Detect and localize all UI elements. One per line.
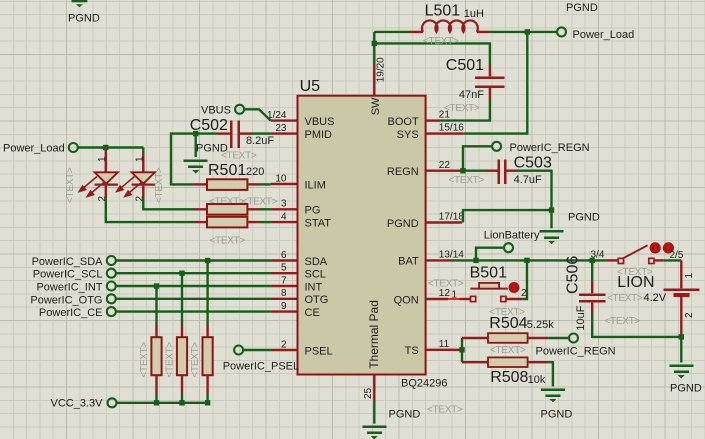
wire L501 to Power_Load	[490, 31, 557, 33]
resistor R501 right lead	[247, 183, 259, 185]
wire LED D1 to STAT resistor	[106, 199, 195, 223]
wire RP3 upper	[206, 261, 208, 325]
terminal VCC_3.3V	[108, 398, 117, 407]
wire R501 to ILIM pin	[260, 183, 271, 185]
capacitor C501 plates	[475, 78, 504, 87]
svg-text:<TEXT>: <TEXT>	[423, 36, 459, 47]
resistor RP3 body (vertical)	[203, 337, 213, 375]
svg-text:BAT: BAT	[398, 256, 419, 268]
terminal PowerIC_SCL	[107, 269, 116, 278]
svg-text:STAT: STAT	[305, 217, 332, 229]
wire PowerIC_OTG to pin	[116, 298, 271, 300]
capacitor C501 top lead	[489, 66, 491, 77]
resistor R-STAT body	[207, 217, 247, 228]
capacitor C506 top lead	[591, 282, 593, 294]
svg-text:6: 6	[281, 250, 287, 261]
wire VCC_3.3V rail	[117, 402, 208, 404]
svg-text:PowerIC_INT: PowerIC_INT	[36, 282, 102, 294]
svg-text:PowerIC_PSEL: PowerIC_PSEL	[223, 361, 299, 373]
resistor RP3 upper lead	[206, 325, 208, 338]
resistor RP2 body (vertical)	[177, 337, 187, 375]
svg-text:<TEXT>: <TEXT>	[427, 405, 463, 416]
LED D2	[117, 148, 155, 199]
svg-text:C502: C502	[190, 117, 228, 134]
wire VBUS terminal to pin (diagonal)	[245, 109, 271, 120]
svg-text:R508: R508	[490, 369, 528, 386]
svg-text:25: 25	[363, 387, 374, 399]
pin OTG stub (pin 8)	[271, 298, 298, 300]
switch SW right lead	[654, 259, 664, 261]
wire divider vertical	[461, 338, 463, 362]
wire L501 to SW corner	[374, 31, 409, 33]
wire R504 to REGN terminal	[548, 337, 569, 339]
junction RP2 bottom	[179, 400, 184, 405]
junction QON branch	[524, 258, 529, 263]
wire REGN pin to junction	[462, 169, 463, 171]
svg-text:PMID: PMID	[305, 129, 333, 141]
svg-text:PSEL: PSEL	[305, 345, 333, 357]
svg-text:R501: R501	[208, 162, 246, 179]
junction C506 top	[590, 258, 595, 263]
junction C502/ground	[193, 131, 198, 136]
svg-text:U5: U5	[300, 78, 321, 95]
wire REGN to terminal	[463, 146, 492, 170]
svg-text:12: 12	[439, 288, 451, 299]
junction RP3 bottom	[205, 400, 210, 405]
resistor R501 body	[207, 179, 247, 190]
wire PowerIC_INT to pin	[116, 285, 271, 287]
resistor RP2 upper lead	[181, 325, 183, 338]
terminal PowerIC_PSEL	[234, 346, 243, 355]
terminal PowerIC_CE	[107, 307, 116, 316]
svg-text:SDA: SDA	[305, 256, 328, 268]
wire PowerIC_CE to pin	[116, 310, 271, 312]
svg-text:PG: PG	[305, 205, 321, 217]
resistor R504 left lead	[462, 337, 488, 339]
svg-text:4: 4	[281, 212, 287, 223]
capacitor C506 bottom lead	[591, 303, 593, 314]
wire R-STAT to STAT pin	[260, 221, 271, 223]
svg-text:<TEXT>: <TEXT>	[221, 150, 257, 161]
svg-text:7: 7	[281, 275, 287, 286]
svg-text:L501: L501	[425, 3, 461, 20]
svg-text:9: 9	[281, 301, 287, 312]
svg-text:SW: SW	[370, 97, 382, 115]
ground flag PGND (top-left, clipped)	[72, 0, 88, 7]
svg-text:23: 23	[275, 123, 287, 134]
wire PowerIC_SCL to pin	[116, 272, 271, 274]
svg-text:SYS: SYS	[397, 129, 419, 141]
svg-text:<TEXT>: <TEXT>	[65, 167, 76, 203]
button B501 pin 2 lead	[506, 298, 522, 300]
svg-text:8: 8	[281, 288, 287, 299]
resistor R-STAT leads	[195, 221, 260, 223]
svg-text:1: 1	[134, 156, 145, 162]
svg-text:10k: 10k	[528, 374, 546, 386]
inductor L501 coils	[422, 20, 478, 31]
wire PGND pin 17/18	[463, 210, 552, 222]
terminal PowerIC_INT	[107, 282, 116, 291]
capacitor C503 right lead	[506, 169, 518, 171]
wire R-PG to PG pin	[260, 208, 271, 210]
capacitor C502 plates	[231, 121, 239, 149]
junction RP1 bottom	[154, 400, 159, 405]
resistor R508 left lead	[462, 361, 488, 363]
junction battery ground rail	[679, 334, 684, 339]
svg-text:Power_Load: Power_Load	[573, 29, 635, 41]
junction TS divider	[459, 347, 464, 352]
svg-text:1uH: 1uH	[464, 8, 484, 20]
battery LION plates	[663, 290, 699, 295]
inductor L501 right lead	[477, 31, 490, 33]
capacitor C501 bottom lead	[489, 88, 491, 99]
svg-text:2: 2	[521, 288, 527, 299]
chip U5 BQ24296 body	[298, 96, 426, 375]
svg-text:C506: C506	[565, 256, 582, 294]
svg-text:4.7uF: 4.7uF	[514, 174, 542, 186]
wire R508 to ground	[548, 362, 553, 386]
pin SYS stub (pin 15/16)	[426, 132, 464, 134]
svg-text:PGND: PGND	[566, 2, 598, 14]
svg-text:5.25k: 5.25k	[527, 319, 554, 331]
wire BAT rail	[451, 259, 606, 261]
svg-text:BOOT: BOOT	[388, 116, 419, 128]
resistor R-PG leads	[195, 208, 260, 210]
pin REGN stub (pin 22)	[426, 169, 462, 171]
wire PSEL terminal to pin	[243, 349, 271, 351]
pin CE stub (pin 9)	[271, 310, 298, 312]
wire RP2 upper	[181, 273, 183, 324]
resistor R508 right lead	[528, 361, 549, 363]
svg-text:1: 1	[684, 273, 695, 279]
svg-text:47nF: 47nF	[459, 89, 484, 101]
ground PGND at R508	[541, 388, 565, 402]
switch SW left lead	[606, 259, 618, 261]
svg-text:PGND: PGND	[541, 409, 573, 421]
wire C506 to battery ground rail	[592, 314, 681, 337]
wire C501 to BOOT pin	[440, 99, 490, 121]
capacitor C503 plates	[499, 160, 506, 185]
wire SYS net	[463, 32, 527, 134]
battery LION pin 1	[680, 260, 682, 288]
pin PSEL stub (pin 2)	[271, 349, 298, 351]
svg-text:1: 1	[97, 156, 108, 162]
svg-text:VBUS: VBUS	[305, 116, 335, 128]
wire BAT to C506	[591, 260, 593, 281]
junction RP1 top	[154, 283, 159, 288]
capacitor C502 right lead	[240, 132, 253, 134]
pin PG stub (pin 3)	[271, 208, 298, 210]
svg-text:11: 11	[439, 339, 450, 350]
svg-text:Thermal Pad: Thermal Pad	[367, 300, 381, 369]
wire REGN to C503	[463, 169, 487, 171]
pin PMID stub (pin 23)	[271, 132, 298, 134]
wire switch to battery	[664, 259, 682, 261]
junction RP2 top	[179, 271, 184, 276]
svg-text:C501: C501	[446, 57, 484, 74]
svg-text:<TEXT>: <TEXT>	[449, 175, 485, 186]
svg-text:10uF: 10uF	[575, 305, 587, 330]
svg-text:PGND: PGND	[387, 218, 419, 230]
junction SYS branch	[525, 29, 530, 34]
svg-text:<TEXT>: <TEXT>	[605, 316, 641, 327]
button B501 actuator red ball	[509, 282, 520, 293]
battery LION pin 2	[680, 297, 682, 334]
svg-text:PGND: PGND	[68, 13, 100, 25]
svg-text:OTG: OTG	[305, 294, 329, 306]
wire RP1 upper	[155, 286, 157, 325]
pin BAT stub (pin 13/14)	[426, 259, 451, 261]
terminal LionBattery	[504, 243, 513, 252]
terminal VBUS	[235, 105, 244, 114]
pin STAT stub (pin 4)	[271, 221, 298, 223]
wire LionBattery riser	[476, 248, 504, 261]
svg-text:<TEXT>: <TEXT>	[607, 293, 643, 304]
wire LED D2 to PG resistor	[143, 199, 194, 210]
svg-text:PGND: PGND	[568, 212, 600, 224]
svg-text:CE: CE	[305, 307, 320, 319]
pin VBUS stub (pin 1/24)	[271, 119, 298, 121]
pin BOOT stub (pin 21)	[426, 119, 441, 121]
pin TS stub (pin 11)	[426, 349, 461, 351]
resistor R504 right lead	[528, 337, 549, 339]
svg-text:3: 3	[281, 199, 287, 210]
pin SW stub (pin 19/20, top)	[373, 65, 375, 96]
svg-text:17/18: 17/18	[439, 212, 464, 223]
svg-text:LionBattery: LionBattery	[484, 230, 540, 242]
pin Thermal Pad stub (pin 25, bottom)	[373, 375, 375, 402]
svg-text:PowerIC_REGN: PowerIC_REGN	[510, 142, 590, 154]
capacitor C502 left lead	[218, 132, 230, 134]
svg-text:13/14: 13/14	[439, 250, 464, 261]
svg-text:VCC_3.3V: VCC_3.3V	[51, 398, 104, 410]
resistor R-PG body	[207, 204, 247, 215]
wire ground stem at C502	[194, 134, 196, 157]
wire RP3 lower	[206, 394, 208, 403]
wire C502 to PMID pin	[252, 132, 271, 134]
pin QON bright state segment	[448, 298, 460, 300]
svg-text:4.2V: 4.2V	[644, 292, 667, 304]
junction LionBattery	[473, 258, 478, 263]
svg-text:REGN: REGN	[387, 166, 419, 178]
svg-text:PGND: PGND	[670, 383, 702, 395]
svg-text:BQ24296: BQ24296	[401, 378, 447, 390]
svg-text:<TEXT>: <TEXT>	[154, 167, 165, 203]
LED D1	[79, 150, 118, 199]
pin INT stub (pin 7)	[271, 285, 298, 287]
junction RP3 top	[205, 258, 210, 263]
terminal PowerIC_REGN (lower)	[569, 334, 578, 343]
terminal Power_Load (left)	[69, 143, 78, 152]
wire RP1 lower	[155, 394, 157, 403]
svg-text:VBUS: VBUS	[201, 105, 231, 117]
svg-text:8.2uF: 8.2uF	[246, 135, 274, 147]
svg-text:<TEXT>: <TEXT>	[190, 342, 201, 378]
resistor RP1 lower lead	[155, 375, 157, 393]
wire C503 to ground	[518, 171, 552, 229]
svg-text:<TEXT>: <TEXT>	[428, 279, 464, 290]
svg-text:INT: INT	[305, 281, 323, 293]
svg-text:LION: LION	[617, 274, 654, 291]
svg-text:220: 220	[246, 166, 264, 178]
svg-text:ILIM: ILIM	[305, 179, 326, 191]
ground PGND at thermal pad	[362, 426, 386, 439]
svg-text:2: 2	[281, 339, 287, 350]
pin QON stub (pin 12)	[426, 298, 448, 300]
resistor RP2 lower lead	[181, 375, 183, 393]
junction SW/C501 branch	[372, 41, 377, 46]
wire RP2 lower	[181, 394, 183, 403]
svg-text:PowerIC_OTG: PowerIC_OTG	[30, 294, 102, 306]
ground PGND at battery	[669, 364, 693, 378]
svg-text:PowerIC_CE: PowerIC_CE	[39, 307, 103, 319]
resistor R504 body	[488, 333, 528, 343]
svg-text:5: 5	[281, 263, 287, 274]
ground PGND at C503	[540, 230, 564, 244]
wire SW pin up	[373, 32, 375, 65]
svg-text:<TEXT>: <TEXT>	[210, 236, 246, 247]
svg-text:SCL: SCL	[305, 269, 326, 281]
svg-text:Power_Load: Power_Load	[3, 143, 65, 155]
svg-text:2: 2	[684, 312, 695, 318]
junction REGN	[460, 168, 465, 173]
ground PGND at C502	[184, 160, 208, 174]
switch SW contacts and lever	[618, 245, 654, 263]
wire Power_Load to LED tops	[78, 146, 143, 148]
terminal PowerIC_REGN (upper)	[492, 142, 501, 151]
svg-text:C503: C503	[514, 155, 552, 172]
resistor R501 left lead	[194, 183, 207, 185]
svg-text:<TEXT>: <TEXT>	[489, 307, 525, 318]
pin SCL stub (pin 5)	[271, 272, 298, 274]
junction C503 ground/PGND pin	[549, 207, 554, 212]
svg-text:3/4: 3/4	[591, 250, 605, 261]
resistor RP1 upper lead	[155, 325, 157, 338]
svg-text:B501: B501	[470, 265, 507, 282]
resistor RP1 body (vertical)	[151, 337, 161, 375]
wire QON branch	[522, 260, 527, 299]
junction LED D1 top	[103, 145, 108, 150]
pin PGND stub (pin 17/18)	[426, 221, 462, 223]
pin ILIM stub (pin 10)	[271, 183, 298, 185]
wire battery to ground	[680, 334, 682, 363]
capacitor C506 plates	[579, 295, 606, 302]
wire C502 left to R501 loop	[171, 134, 218, 185]
wire SW branch to C501	[374, 43, 490, 65]
svg-text:TS: TS	[405, 345, 419, 357]
terminal Power_Load (right)	[557, 27, 566, 36]
switch SW toggle red balls	[650, 242, 674, 253]
resistor RP3 lower lead	[206, 375, 208, 393]
terminal PowerIC_SDA	[107, 256, 116, 265]
terminal PowerIC_OTG	[107, 294, 116, 303]
svg-text:<TEXT>: <TEXT>	[444, 103, 480, 114]
svg-text:PowerIC_SDA: PowerIC_SDA	[32, 256, 104, 268]
svg-text:22: 22	[439, 160, 451, 171]
svg-text:19/20: 19/20	[376, 57, 387, 82]
svg-text:<TEXT>: <TEXT>	[165, 342, 176, 378]
svg-text:<TEXT>: <TEXT>	[490, 345, 526, 356]
resistor R508 body	[488, 357, 528, 367]
svg-text:QON: QON	[394, 294, 419, 306]
button B501	[470, 283, 507, 302]
svg-text:PowerIC_REGN: PowerIC_REGN	[536, 346, 616, 358]
wire TS pin to divider	[461, 349, 463, 351]
wire thermal pad to ground	[373, 402, 375, 424]
svg-text:15/16: 15/16	[439, 123, 464, 134]
svg-text:PGND: PGND	[389, 409, 421, 421]
inductor L501 left lead	[409, 31, 423, 33]
button B501 pin 1 lead	[460, 298, 471, 300]
svg-text:10: 10	[275, 173, 287, 184]
svg-text:<TEXT>: <TEXT>	[139, 342, 150, 378]
wire PowerIC_SDA to pin	[116, 259, 271, 261]
capacitor C503 left lead	[487, 169, 498, 171]
svg-text:PowerIC_SCL: PowerIC_SCL	[33, 269, 103, 281]
pin SDA stub (pin 6)	[271, 259, 298, 261]
